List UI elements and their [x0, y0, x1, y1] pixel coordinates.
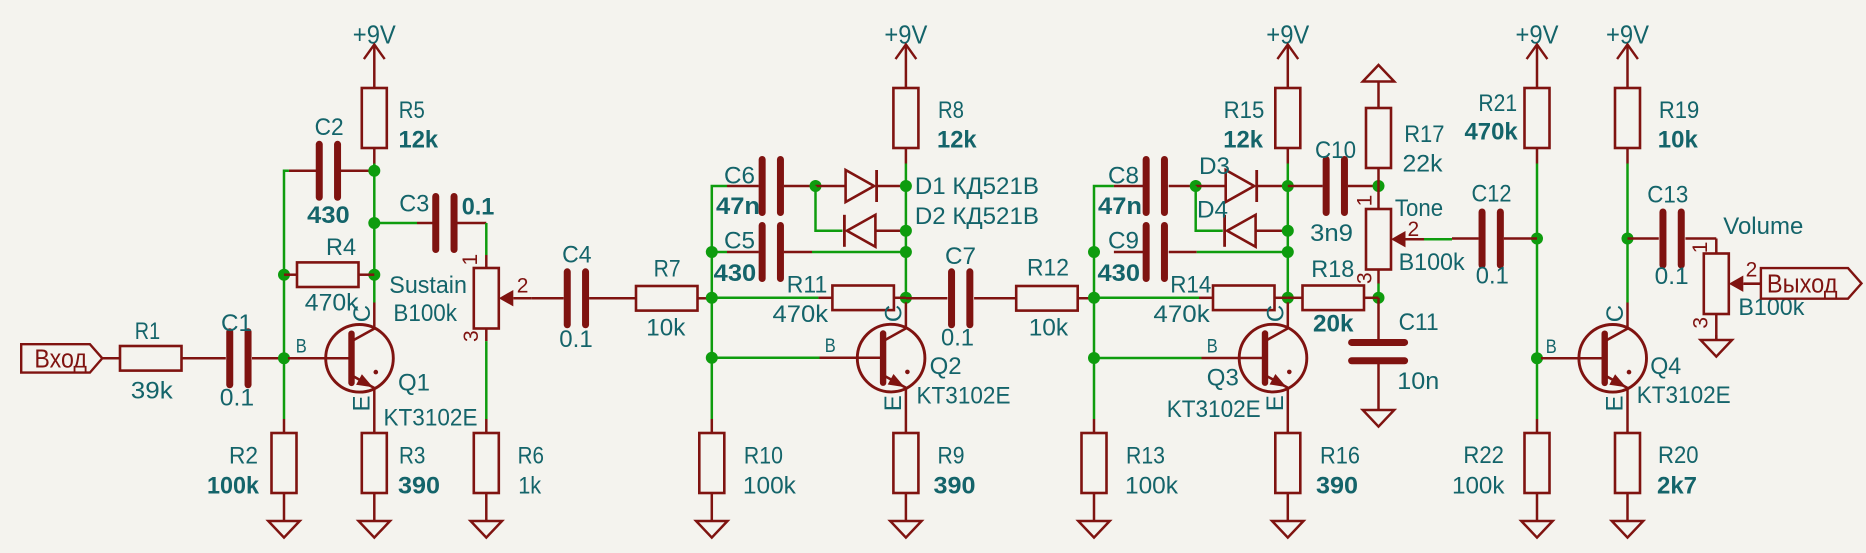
resistor R3	[362, 433, 387, 493]
wire base Q2	[712, 357, 820, 360]
lead C6 right	[784, 185, 816, 188]
ground	[1093, 493, 1096, 521]
lead C5 right	[784, 251, 812, 254]
junction diode branch	[810, 180, 822, 192]
ground	[1715, 335, 1718, 340]
resistor R7	[636, 286, 698, 311]
pin number 1 (Volume)	[1689, 242, 1712, 254]
resistor R20	[1615, 433, 1640, 493]
svg-text:100k: 100k	[1125, 473, 1179, 500]
lead C3 right	[454, 222, 486, 225]
wire C9 to column	[1197, 251, 1288, 254]
svg-text:0.1: 0.1	[559, 326, 592, 353]
svg-text:R4: R4	[326, 234, 356, 261]
resistor R21	[1525, 88, 1550, 148]
wire to C3	[374, 222, 417, 225]
svg-text:R15: R15	[1224, 97, 1265, 124]
capacitor C6	[759, 160, 766, 213]
lead R14 right	[1275, 297, 1288, 300]
lead C2 left	[289, 170, 317, 173]
svg-text:47n: 47n	[716, 193, 760, 220]
svg-text:470k: 470k	[1465, 119, 1519, 146]
junction base row Q3	[1088, 352, 1100, 364]
wire stage4 left column	[1536, 164, 1539, 420]
lead R14 left	[1199, 297, 1213, 300]
ground	[1287, 493, 1290, 521]
junction D2 right	[900, 225, 912, 237]
lead R18 left	[1288, 297, 1303, 300]
wire to D2	[816, 186, 843, 231]
capacitor C4	[564, 272, 571, 325]
wire input to R1	[102, 357, 120, 360]
pin name C (Q2)	[880, 305, 907, 322]
global label Вход	[21, 344, 102, 372]
potentiometer RV2 Tone	[1366, 209, 1391, 270]
svg-text:1: 1	[1353, 195, 1376, 207]
lead C13 left	[1628, 237, 1659, 240]
svg-text:100k: 100k	[207, 473, 259, 500]
pin 1 Sustain	[485, 255, 488, 268]
junction C5 left	[706, 246, 718, 258]
svg-text:3: 3	[1689, 317, 1712, 329]
svg-text:10k: 10k	[1029, 315, 1069, 342]
svg-text:R12: R12	[1027, 255, 1069, 282]
resistor R2	[272, 433, 297, 493]
resistor R22	[1525, 433, 1550, 493]
resistor R15	[1275, 88, 1300, 148]
pin number 1 (Sustain)	[459, 254, 482, 266]
svg-text:R5: R5	[399, 97, 425, 124]
lead C12 left	[1452, 237, 1479, 240]
svg-text:C2: C2	[315, 114, 344, 141]
capacitor C1	[226, 332, 233, 385]
junction C9 right	[1282, 246, 1294, 258]
junction C12 right	[1531, 233, 1543, 245]
svg-text:C: C	[1602, 305, 1629, 322]
svg-text:B: B	[296, 337, 307, 358]
svg-text:2k7: 2k7	[1657, 473, 1697, 500]
wire base Q3	[1094, 357, 1202, 360]
svg-text:R2: R2	[229, 443, 258, 470]
resistor R18	[1303, 286, 1365, 311]
svg-text:390: 390	[1316, 473, 1358, 500]
lead C10 right	[1348, 185, 1379, 188]
wire collector column Q1	[373, 164, 376, 303]
capacitor C10	[1323, 160, 1330, 213]
svg-text:47n: 47n	[1098, 193, 1142, 220]
resistor R19	[1615, 88, 1640, 148]
wire left column node	[284, 171, 289, 419]
svg-text:B: B	[1546, 337, 1557, 358]
svg-text:1k: 1k	[518, 473, 542, 500]
resistor R11	[832, 286, 894, 311]
diode D2	[844, 215, 906, 247]
svg-text:470k: 470k	[1153, 301, 1210, 328]
svg-text:D3: D3	[1199, 153, 1230, 180]
junction base row Q2	[706, 352, 718, 364]
svg-text:Q4: Q4	[1650, 353, 1681, 380]
svg-text:C: C	[1262, 305, 1289, 322]
wire wiper to output	[1744, 282, 1761, 285]
lead C9 right	[1169, 251, 1197, 254]
pin name E (Q2)	[880, 395, 907, 411]
svg-text:C3: C3	[399, 191, 429, 218]
capacitor C2	[316, 144, 323, 197]
lead C10 left	[1288, 185, 1323, 188]
svg-text:D1 КД521В: D1 КД521В	[915, 173, 1039, 200]
svg-text:Q2: Q2	[930, 353, 962, 380]
svg-text:1: 1	[1689, 242, 1712, 254]
junction diode branch stage3	[1190, 180, 1202, 192]
ground	[711, 493, 714, 521]
potentiometer RV3 Volume	[1704, 254, 1729, 315]
lead R4 left	[284, 273, 297, 276]
resistor R13	[1082, 433, 1107, 493]
wire emitter Q2 to R9	[905, 388, 908, 433]
wire stage3 collector column	[1287, 164, 1290, 303]
pin number 3 (Tone)	[1354, 272, 1377, 284]
transistor Q3	[1239, 302, 1307, 392]
svg-text:R7: R7	[654, 256, 681, 283]
svg-text:E: E	[1262, 395, 1289, 411]
junction R11 row left	[706, 292, 718, 304]
lead R7 right	[698, 297, 712, 300]
svg-text:C11: C11	[1399, 309, 1439, 336]
wire wiper to C4	[532, 297, 564, 300]
svg-text:R6: R6	[518, 443, 544, 470]
resistor R4	[297, 262, 359, 287]
svg-text:390: 390	[398, 473, 440, 500]
lead R11 right	[894, 297, 906, 300]
svg-text:B: B	[825, 336, 836, 357]
resistor R17	[1366, 108, 1391, 168]
svg-text:R1: R1	[135, 318, 160, 345]
svg-text:KT3102E: KT3102E	[1167, 396, 1261, 423]
ground	[1536, 493, 1539, 521]
svg-text:39k: 39k	[131, 378, 174, 405]
junction R12-R14	[1088, 292, 1100, 304]
lead C2 right	[340, 170, 374, 173]
svg-text:430: 430	[714, 260, 757, 287]
wire emitter Q4 to R20	[1626, 388, 1629, 433]
junction C3 branch	[368, 217, 380, 229]
svg-text:D2 КД521В: D2 КД521В	[915, 203, 1039, 230]
svg-text:C9: C9	[1108, 228, 1139, 255]
wire R5 to C2 node	[373, 149, 376, 171]
wire to R6	[485, 419, 488, 433]
wire R1 to C1	[182, 357, 226, 360]
svg-text:B100k: B100k	[1399, 249, 1466, 276]
capacitor C11	[1352, 339, 1405, 346]
pin name E (Q4)	[1602, 395, 1629, 411]
svg-text:R3: R3	[399, 443, 425, 470]
svg-text:R9: R9	[938, 443, 965, 470]
transistor Q1	[326, 303, 394, 393]
svg-text:430: 430	[307, 202, 350, 229]
svg-text:R10: R10	[744, 443, 783, 470]
lead C8 left	[1114, 185, 1146, 188]
lead R12 right	[1078, 297, 1094, 300]
lead R11 left	[818, 297, 832, 300]
ground	[1377, 364, 1380, 411]
ground	[373, 493, 376, 521]
svg-text:C1: C1	[221, 310, 252, 337]
wire C1 to node B	[252, 357, 288, 360]
svg-text:0.1: 0.1	[1655, 263, 1689, 290]
svg-text:22k: 22k	[1403, 151, 1444, 178]
junction collector node Q2	[900, 292, 912, 304]
svg-text:R17: R17	[1404, 121, 1444, 148]
svg-text:10n: 10n	[1397, 368, 1439, 395]
diode D1	[816, 170, 906, 202]
junction D1 right	[900, 180, 912, 192]
svg-text:C13: C13	[1647, 181, 1688, 208]
wire R14 left	[1094, 297, 1199, 300]
junction D3 right	[1282, 180, 1294, 192]
wire R8 bottom	[905, 149, 908, 164]
wire R15 bottom	[1287, 149, 1290, 164]
svg-text:C12: C12	[1472, 181, 1512, 208]
svg-text:3: 3	[460, 330, 483, 342]
transistor Q2	[857, 302, 925, 392]
lead C3 left	[417, 222, 436, 225]
junction C5 right	[900, 246, 912, 258]
pin 1 Tone	[1377, 186, 1380, 209]
pin number 3 (Sustain)	[460, 330, 483, 342]
capacitor C5	[759, 226, 766, 279]
pin 3 Tone	[1377, 270, 1380, 284]
wire C5 to column	[812, 251, 906, 254]
lead C7 left	[906, 297, 948, 300]
resistor R5	[362, 88, 387, 148]
svg-text:D4: D4	[1197, 197, 1228, 224]
wire Tone wiper to C12	[1424, 238, 1452, 241]
svg-text:100k: 100k	[1452, 473, 1505, 500]
lead C9 left	[1114, 251, 1146, 254]
pin name C (Q1)	[349, 305, 376, 322]
pin number 3 (Volume)	[1689, 317, 1712, 329]
svg-text:E: E	[348, 395, 375, 411]
svg-text:2: 2	[517, 275, 529, 298]
junction R18 right	[1373, 292, 1385, 304]
resistor R9	[893, 433, 918, 493]
junction C9 left	[1088, 246, 1100, 258]
svg-text:C10: C10	[1315, 137, 1356, 164]
global label Выход	[1761, 268, 1862, 299]
wire to D4	[1196, 186, 1223, 231]
svg-text:Вход: Вход	[34, 346, 87, 374]
lead C8 right	[1169, 185, 1196, 188]
resistor R10	[699, 433, 724, 493]
svg-text:E: E	[1602, 395, 1629, 411]
svg-text:12k: 12k	[1223, 127, 1263, 154]
wire emitter Q3 to R16	[1287, 388, 1290, 433]
wire stage2 collector column	[905, 164, 908, 303]
ground	[283, 493, 286, 521]
pin B Q4	[1541, 357, 1606, 360]
svg-text:C7: C7	[945, 243, 976, 270]
capacitor C3	[432, 197, 439, 250]
svg-text:Sustain: Sustain	[389, 272, 467, 299]
pin name C (Q3)	[1262, 305, 1289, 322]
lead C12 right	[1504, 237, 1537, 240]
wire Sustain pin3 to R6	[485, 341, 488, 419]
svg-text:12k: 12k	[399, 127, 439, 154]
pin B Q2	[820, 357, 885, 360]
svg-text:Volume: Volume	[1723, 213, 1803, 240]
svg-text:B: B	[1207, 337, 1218, 358]
svg-text:C: C	[349, 305, 376, 322]
wire R19 bottom	[1626, 149, 1629, 164]
wire R11 left	[712, 297, 819, 300]
wire C5 left	[712, 251, 727, 254]
wire C4 to R7	[589, 297, 636, 300]
junction R4 right	[368, 269, 380, 281]
svg-text:KT3102E: KT3102E	[384, 405, 478, 432]
capacitor C8	[1143, 160, 1150, 213]
wire C3 to Sustain pin 1	[485, 223, 488, 255]
svg-text:100k: 100k	[743, 473, 797, 500]
svg-text:10k: 10k	[1658, 127, 1698, 154]
junction base node Q4	[1531, 352, 1543, 364]
svg-text:2: 2	[1408, 218, 1420, 241]
wire stage2 left column	[712, 186, 727, 419]
svg-text:0.1: 0.1	[220, 385, 254, 412]
svg-text:R20: R20	[1658, 442, 1699, 469]
resistor R6	[474, 433, 499, 493]
svg-text:1: 1	[459, 254, 482, 266]
capacitor C12	[1479, 212, 1486, 265]
wire R21 bottom	[1536, 149, 1539, 164]
ground	[1626, 493, 1629, 521]
capacitor C7	[948, 272, 955, 325]
svg-text:390: 390	[934, 473, 976, 500]
pin name E (Q1)	[348, 395, 375, 411]
capacitor C13	[1659, 212, 1666, 265]
wire Tone pin3 to R18 node	[1377, 284, 1380, 298]
svg-text:0.1: 0.1	[1476, 263, 1509, 290]
svg-text:KT3102E: KT3102E	[917, 383, 1011, 410]
wire to R13	[1093, 419, 1096, 433]
svg-text:R18: R18	[1311, 256, 1354, 283]
wire stage4 collector column	[1626, 164, 1629, 303]
diode D3	[1196, 170, 1288, 202]
pin 3 Sustain	[485, 329, 488, 342]
ground	[905, 493, 908, 521]
wire C13 to Volume pin 1	[1715, 239, 1718, 254]
svg-text:B100k: B100k	[393, 300, 457, 327]
ground	[485, 493, 488, 521]
svg-text:R22: R22	[1463, 442, 1504, 469]
lead R18 right	[1364, 297, 1379, 300]
junction node B	[278, 352, 290, 364]
svg-text:C8: C8	[1108, 163, 1139, 190]
pin number 1 (Tone)	[1353, 195, 1376, 207]
svg-text:10k: 10k	[646, 315, 686, 342]
svg-text:0.1: 0.1	[941, 325, 974, 352]
svg-text:Выход: Выход	[1767, 271, 1838, 299]
svg-text:0.1: 0.1	[462, 193, 495, 220]
pin B Q1	[288, 357, 352, 360]
svg-text:R21: R21	[1478, 90, 1517, 117]
resistor R8	[893, 88, 918, 148]
resistor R14	[1213, 286, 1275, 311]
svg-text:C6: C6	[724, 163, 755, 190]
wire to R10	[711, 419, 714, 433]
lead C6 left	[727, 185, 759, 188]
svg-text:R8: R8	[938, 97, 964, 124]
svg-text:C4: C4	[562, 242, 591, 269]
pin 3 Volume	[1715, 314, 1718, 340]
svg-text:2: 2	[1746, 259, 1758, 282]
svg-text:E: E	[880, 395, 907, 411]
svg-text:3: 3	[1354, 272, 1377, 284]
wire to R22	[1536, 419, 1539, 433]
lead C5 left	[727, 251, 759, 254]
transistor Q4	[1579, 303, 1647, 393]
pin R17 bottom	[1377, 168, 1380, 186]
potentiometer RV1 Sustain	[474, 268, 499, 329]
junction R4 left	[278, 269, 290, 281]
lead C7 right	[974, 297, 1016, 300]
svg-text:12k: 12k	[937, 127, 977, 154]
power flag	[1377, 82, 1380, 109]
svg-text:R16: R16	[1320, 443, 1360, 470]
pin name C (Q4)	[1602, 305, 1629, 322]
junction C2-R5	[368, 165, 380, 177]
junction collector node Q3	[1282, 292, 1294, 304]
svg-text:C: C	[880, 305, 907, 322]
wire emitter Q1 to R3	[373, 388, 376, 433]
diode D4	[1225, 215, 1288, 247]
svg-text:R13: R13	[1126, 443, 1165, 470]
svg-text:Q3: Q3	[1207, 365, 1239, 392]
junction C13 left	[1622, 233, 1634, 245]
svg-text:20k: 20k	[1313, 311, 1354, 338]
capacitor C9	[1143, 226, 1150, 279]
svg-text:Q1: Q1	[398, 370, 430, 397]
resistor R1	[120, 346, 182, 371]
svg-text:470k: 470k	[773, 301, 829, 328]
wire node B to R2	[283, 419, 286, 433]
svg-text:R11: R11	[787, 272, 828, 299]
resistor R16	[1275, 433, 1300, 493]
junction D4 right	[1282, 225, 1294, 237]
lead C13 right	[1685, 237, 1716, 240]
pin name E (Q3)	[1262, 395, 1289, 411]
svg-text:430: 430	[1098, 260, 1141, 287]
lead R4 right	[359, 273, 375, 276]
svg-text:R19: R19	[1659, 97, 1699, 124]
wire stage3 left column	[1094, 186, 1114, 419]
pin B Q3	[1202, 357, 1267, 360]
svg-text:3n9: 3n9	[1310, 220, 1353, 247]
junction R17-Tone	[1373, 180, 1385, 192]
resistor R12	[1016, 286, 1077, 311]
svg-text:R14: R14	[1170, 272, 1211, 299]
lead C11 top	[1377, 298, 1380, 339]
svg-text:C5: C5	[724, 228, 755, 255]
svg-text:KT3102E: KT3102E	[1637, 382, 1731, 409]
